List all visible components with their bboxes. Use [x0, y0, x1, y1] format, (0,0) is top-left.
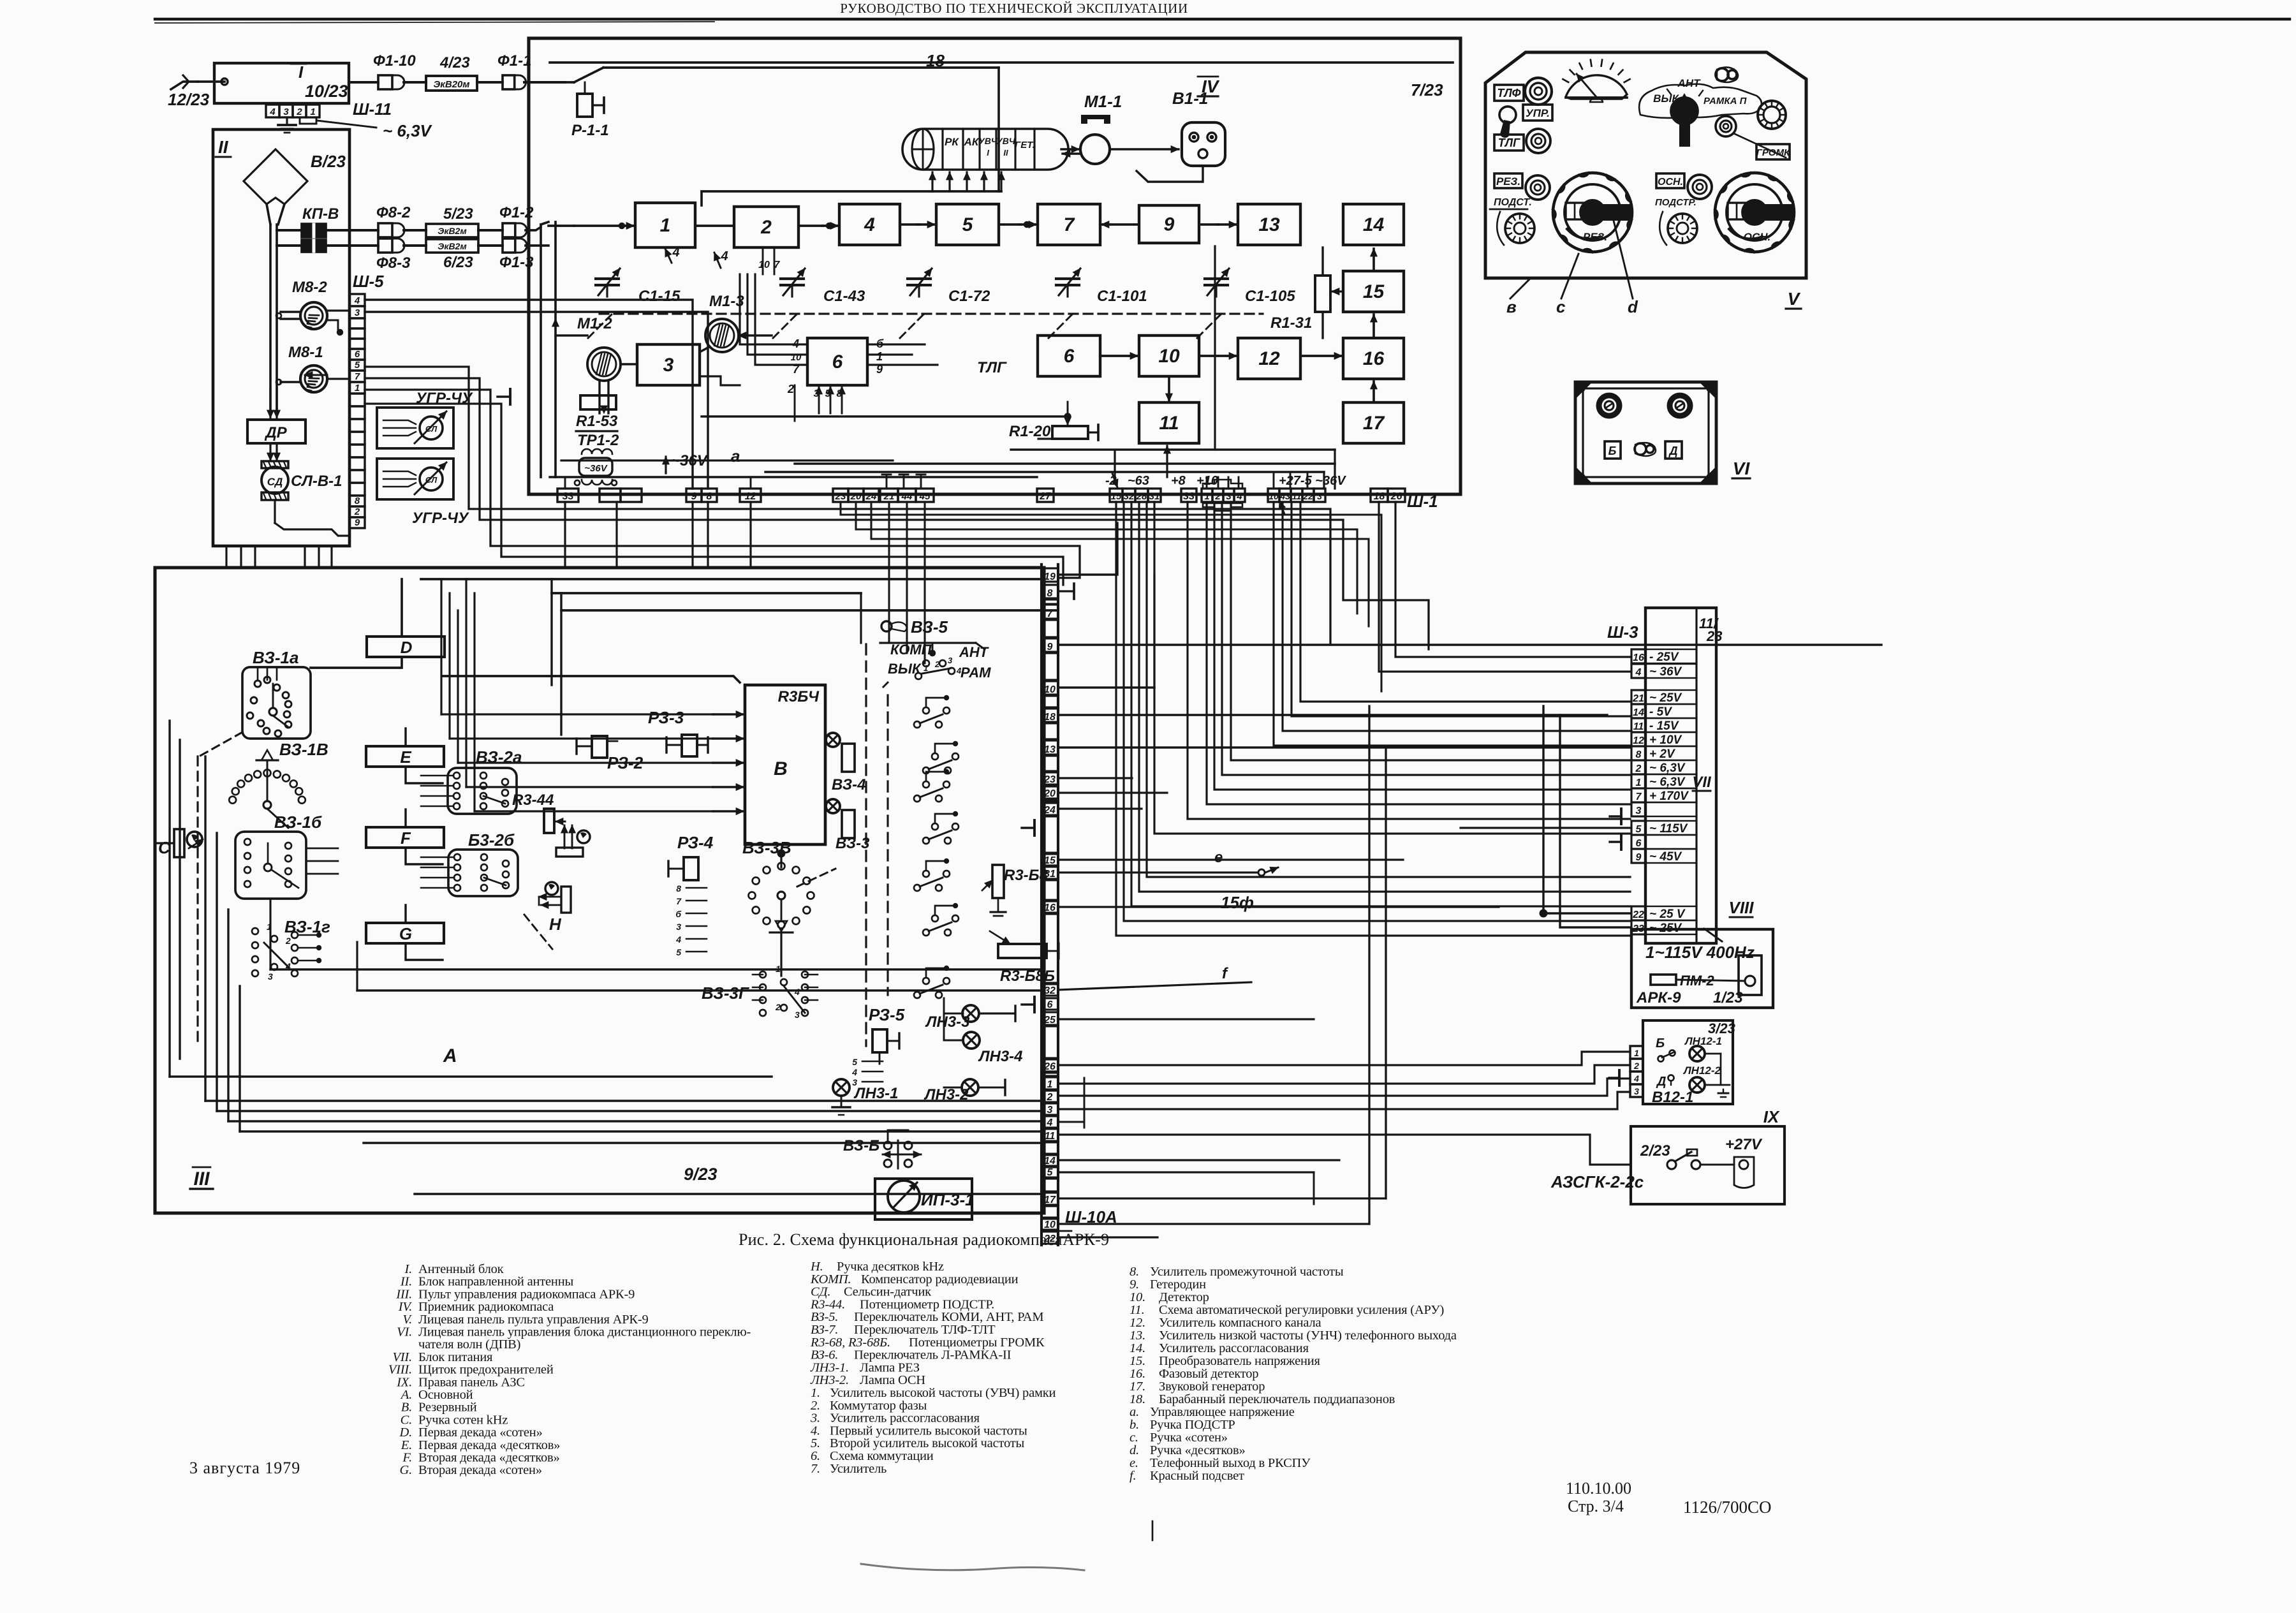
svg-text:4: 4 — [1047, 1117, 1053, 1128]
svg-text:Пульт управления радиокомпаса: Пульт управления радиокомпаса АРК-9 — [418, 1287, 635, 1301]
svg-text:3/23: 3/23 — [1708, 1020, 1735, 1036]
svg-text:АРК-9: АРК-9 — [1063, 1230, 1109, 1249]
svg-text:15: 15 — [1044, 855, 1056, 866]
svg-text:10/23: 10/23 — [305, 82, 348, 101]
svg-text:3: 3 — [1047, 1105, 1053, 1116]
svg-text:+8: +8 — [1171, 474, 1186, 488]
svg-text:II: II — [218, 137, 229, 157]
svg-text:ВЗ-1б: ВЗ-1б — [274, 813, 322, 832]
svg-text:ЛН3-4: ЛН3-4 — [978, 1048, 1023, 1065]
svg-text:~ 25 V: ~ 25 V — [1649, 908, 1686, 921]
svg-text:РЕЗ.: РЕЗ. — [1496, 175, 1520, 188]
svg-text:М8-2: М8-2 — [292, 279, 327, 296]
svg-text:~ 25V: ~ 25V — [1649, 691, 1682, 705]
svg-text:ПОДСТР.: ПОДСТР. — [1655, 197, 1696, 208]
svg-text:12/23: 12/23 — [168, 90, 210, 109]
svg-text:РЗ-2: РЗ-2 — [607, 753, 644, 772]
svg-text:7: 7 — [355, 371, 360, 382]
svg-text:~ 45V: ~ 45V — [1649, 850, 1682, 864]
svg-text:В12-1: В12-1 — [1652, 1089, 1693, 1106]
svg-text:28: 28 — [1136, 491, 1147, 502]
svg-text:f.: f. — [1130, 1469, 1136, 1483]
svg-text:I: I — [987, 148, 989, 158]
svg-text:IV.: IV. — [398, 1300, 413, 1314]
svg-text:6: 6 — [1047, 999, 1053, 1010]
svg-text:2: 2 — [1635, 763, 1642, 774]
svg-text:СД.: СД. — [811, 1285, 830, 1299]
svg-text:31: 31 — [1044, 869, 1056, 880]
svg-text:25: 25 — [1043, 1015, 1056, 1026]
svg-text:ЭкВ2м: ЭкВ2м — [438, 241, 467, 251]
svg-text:3: 3 — [795, 1010, 800, 1020]
svg-text:+ 10V: + 10V — [1649, 733, 1682, 747]
svg-text:18.: 18. — [1130, 1392, 1145, 1406]
svg-text:РЗ-5: РЗ-5 — [869, 1005, 905, 1024]
svg-text:1: 1 — [310, 107, 315, 117]
svg-text:110.10.00: 110.10.00 — [1566, 1479, 1631, 1498]
svg-text:33: 33 — [1183, 491, 1195, 502]
svg-text:15ф: 15ф — [1221, 893, 1254, 912]
svg-text:A.: A. — [400, 1388, 412, 1402]
svg-text:С1-72: С1-72 — [948, 288, 990, 305]
svg-text:23: 23 — [1706, 628, 1722, 644]
svg-text:5: 5 — [852, 1057, 857, 1067]
svg-text:VII: VII — [1692, 774, 1712, 791]
svg-text:В/23: В/23 — [311, 152, 346, 171]
svg-text:РУКОВОДСТВО ПО ТЕХНИЧЕСКОЙ ЭКС: РУКОВОДСТВО ПО ТЕХНИЧЕСКОЙ ЭКСПЛУАТАЦИИ — [840, 1, 1188, 16]
svg-text:c.: c. — [1130, 1431, 1138, 1445]
svg-text:4: 4 — [1236, 491, 1242, 502]
svg-text:Коммутатор фазы: Коммутатор фазы — [830, 1399, 927, 1413]
svg-text:8: 8 — [676, 883, 681, 894]
svg-text:2: 2 — [934, 659, 940, 669]
svg-text:Антенный блок: Антенный блок — [418, 1262, 504, 1276]
svg-text:Гетеродин: Гетеродин — [1150, 1278, 1206, 1292]
svg-text:1: 1 — [660, 215, 671, 236]
svg-text:VIII: VIII — [1728, 898, 1754, 917]
svg-text:Первая декада «сотен»: Первая декада «сотен» — [418, 1425, 543, 1440]
svg-text:~ 6,3V: ~ 6,3V — [1649, 762, 1686, 775]
svg-text:6: 6 — [832, 351, 843, 372]
svg-text:23: 23 — [835, 491, 846, 502]
svg-text:10: 10 — [758, 260, 770, 270]
svg-text:8: 8 — [1047, 588, 1053, 599]
svg-text:1126/700CO: 1126/700CO — [1683, 1498, 1772, 1517]
svg-text:18: 18 — [1374, 491, 1385, 502]
svg-text:Первый усилитель высокой часто: Первый усилитель высокой частоты — [830, 1424, 1027, 1438]
svg-text:4: 4 — [675, 934, 681, 945]
svg-text:ВЗ-5.: ВЗ-5. — [811, 1310, 838, 1324]
svg-text:24: 24 — [865, 491, 877, 502]
svg-text:15: 15 — [1111, 491, 1122, 502]
svg-text:C.: C. — [401, 1413, 412, 1427]
svg-text:5: 5 — [1636, 824, 1642, 835]
svg-text:Ручка сотен kHz: Ручка сотен kHz — [418, 1413, 508, 1427]
svg-text:Схема коммутации: Схема коммутации — [830, 1449, 934, 1463]
svg-text:- 15V: - 15V — [1649, 719, 1679, 733]
svg-text:16.: 16. — [1130, 1367, 1145, 1381]
svg-text:Потенциометр ПОДСТР.: Потенциометр ПОДСТР. — [860, 1297, 994, 1311]
svg-text:С1-15: С1-15 — [638, 288, 681, 305]
svg-text:III.: III. — [395, 1287, 412, 1301]
svg-text:ВЗ-4: ВЗ-4 — [832, 776, 866, 793]
svg-text:33: 33 — [563, 491, 574, 502]
svg-text:УВЧ: УВЧ — [978, 136, 998, 146]
svg-text:3: 3 — [948, 656, 953, 665]
svg-text:Н: Н — [549, 915, 562, 934]
svg-text:Ш-11: Ш-11 — [353, 99, 392, 119]
svg-text:Блок направленной антенны: Блок направленной антенны — [418, 1275, 573, 1289]
svg-text:1: 1 — [1634, 1048, 1639, 1058]
svg-text:Лампа ОСН: Лампа ОСН — [860, 1373, 925, 1387]
svg-text:IX: IX — [1763, 1107, 1780, 1126]
svg-text:ТЛГ: ТЛГ — [1498, 136, 1520, 149]
svg-text:Приемник радиокомпаса: Приемник радиокомпаса — [418, 1300, 554, 1314]
svg-text:14: 14 — [1633, 707, 1644, 718]
svg-text:е: е — [1214, 849, 1223, 866]
svg-text:Управляющее напряжение: Управляющее напряжение — [1150, 1405, 1295, 1419]
svg-text:45: 45 — [919, 491, 931, 502]
svg-text:Рис. 2. Схема функциональная р: Рис. 2. Схема функциональная радиокомпас… — [739, 1230, 1063, 1249]
svg-text:4.: 4. — [811, 1424, 820, 1438]
svg-text:17: 17 — [1044, 1195, 1056, 1205]
svg-text:5: 5 — [676, 947, 681, 957]
svg-text:Вторая декада «сотен»: Вторая декада «сотен» — [418, 1463, 542, 1477]
svg-text:9.: 9. — [1130, 1278, 1139, 1292]
svg-text:Ручка ПОДСТР: Ручка ПОДСТР — [1150, 1418, 1235, 1432]
svg-text:ВЗ-1В: ВЗ-1В — [279, 740, 328, 759]
svg-text:7/23: 7/23 — [1411, 80, 1443, 99]
svg-text:Красный подсвет: Красный подсвет — [1150, 1469, 1244, 1483]
svg-text:12: 12 — [1258, 348, 1280, 369]
svg-text:АРК-9: АРК-9 — [1636, 989, 1681, 1006]
svg-text:Ш-1: Ш-1 — [1407, 492, 1438, 511]
svg-text:М1-2: М1-2 — [577, 315, 612, 332]
svg-text:АЗСГК-2-2с: АЗСГК-2-2с — [1550, 1172, 1644, 1191]
svg-text:Звуковой генератор: Звуковой генератор — [1159, 1380, 1265, 1394]
svg-text:10: 10 — [1044, 684, 1056, 695]
svg-text:R1-31: R1-31 — [1270, 314, 1312, 332]
svg-text:СД: СД — [267, 476, 283, 488]
svg-text:3: 3 — [663, 355, 674, 376]
svg-text:ЛН3-1: ЛН3-1 — [853, 1085, 899, 1102]
svg-text:14.: 14. — [1130, 1341, 1145, 1355]
svg-text:3.: 3. — [810, 1411, 820, 1425]
svg-text:21: 21 — [883, 491, 895, 502]
svg-text:УПР.: УПР. — [1526, 107, 1550, 119]
svg-text:d.: d. — [1130, 1443, 1139, 1457]
svg-text:Ф1-10: Ф1-10 — [373, 52, 416, 70]
svg-text:АК: АК — [964, 136, 980, 148]
svg-text:Блок питания: Блок питания — [418, 1350, 493, 1364]
svg-text:7.: 7. — [811, 1462, 820, 1476]
svg-text:ЛН3-3: ЛН3-3 — [925, 1013, 970, 1031]
svg-text:16: 16 — [1044, 902, 1056, 913]
svg-text:IX.: IX. — [396, 1375, 412, 1389]
svg-text:11: 11 — [1292, 491, 1302, 501]
svg-text:12: 12 — [745, 491, 756, 502]
svg-text:VI: VI — [1733, 459, 1751, 478]
svg-text:13: 13 — [1258, 214, 1280, 235]
svg-text:2: 2 — [296, 107, 302, 117]
svg-text:1: 1 — [355, 383, 360, 394]
svg-text:15.: 15. — [1130, 1354, 1145, 1368]
svg-text:~ 6,3V: ~ 6,3V — [383, 121, 433, 140]
svg-text:~36V: ~36V — [584, 463, 608, 474]
svg-text:III: III — [193, 1168, 210, 1189]
svg-text:Барабанный переключатель подди: Барабанный переключатель поддиапазонов — [1159, 1392, 1395, 1406]
svg-text:Б: Б — [1608, 445, 1617, 457]
svg-text:a.: a. — [1130, 1405, 1139, 1419]
svg-text:Телефонный выход в РКСПУ: Телефонный выход в РКСПУ — [1150, 1456, 1311, 1470]
svg-text:ЛН3-1.: ЛН3-1. — [810, 1360, 849, 1374]
svg-text:9: 9 — [1164, 214, 1175, 235]
svg-text:Усилитель промежуточной частот: Усилитель промежуточной частоты — [1150, 1265, 1344, 1279]
svg-text:Усилитель рассогласования: Усилитель рассогласования — [830, 1411, 980, 1425]
svg-text:13.: 13. — [1130, 1329, 1145, 1343]
svg-text:Компенсатор радиодевиации: Компенсатор радиодевиации — [861, 1272, 1019, 1286]
svg-text:4: 4 — [851, 1067, 857, 1077]
svg-text:1: 1 — [1636, 777, 1642, 788]
svg-text:Д: Д — [1668, 445, 1678, 457]
svg-text:4: 4 — [1633, 1073, 1639, 1084]
svg-text:17.: 17. — [1130, 1380, 1145, 1394]
svg-text:Резервный: Резервный — [418, 1401, 477, 1415]
svg-text:Д: Д — [1656, 1075, 1666, 1089]
svg-text:6: 6 — [355, 349, 360, 360]
svg-text:10.: 10. — [1130, 1290, 1145, 1304]
svg-text:Основной: Основной — [418, 1388, 473, 1402]
svg-text:Переключатель Л-РАМКА-II: Переключатель Л-РАМКА-II — [854, 1348, 1012, 1362]
svg-text:4: 4 — [672, 246, 679, 260]
svg-text:II: II — [1003, 148, 1008, 158]
svg-text:Ф8-2: Ф8-2 — [376, 204, 411, 221]
svg-text:F.: F. — [402, 1451, 412, 1465]
svg-text:13: 13 — [1044, 744, 1056, 755]
svg-text:С1-105: С1-105 — [1245, 288, 1295, 305]
svg-text:I: I — [298, 63, 304, 82]
svg-text:9: 9 — [1636, 852, 1642, 863]
svg-text:б: б — [675, 909, 681, 919]
svg-text:2: 2 — [1633, 1061, 1639, 1071]
svg-text:3 августа 1979: 3 августа 1979 — [189, 1459, 300, 1477]
svg-text:~63: ~63 — [1128, 474, 1149, 488]
svg-text:f: f — [1222, 965, 1228, 982]
svg-text:ТЛФ: ТЛФ — [1497, 87, 1520, 99]
svg-text:Преобразователь напряжения: Преобразователь напряжения — [1159, 1354, 1321, 1368]
svg-text:ТЛГ: ТЛГ — [977, 359, 1007, 376]
svg-text:ВЗ-1а: ВЗ-1а — [253, 648, 298, 667]
svg-text:4: 4 — [1635, 667, 1642, 678]
svg-text:d: d — [1628, 297, 1638, 316]
svg-text:24: 24 — [1043, 805, 1056, 816]
svg-text:11: 11 — [1045, 1131, 1056, 1142]
svg-text:2/23: 2/23 — [1640, 1142, 1670, 1160]
svg-text:5/23: 5/23 — [443, 205, 473, 223]
svg-text:РАМКА П: РАМКА П — [1704, 96, 1748, 107]
svg-text:F: F — [401, 829, 411, 848]
svg-text:20: 20 — [850, 491, 862, 502]
svg-text:Лицевая панель управления блок: Лицевая панель управления блока дистанци… — [418, 1325, 751, 1339]
svg-text:5: 5 — [1047, 1167, 1054, 1178]
svg-text:Ручка десятков kHz: Ручка десятков kHz — [837, 1260, 944, 1274]
svg-text:~ 36V: ~ 36V — [1649, 665, 1682, 679]
svg-text:9: 9 — [691, 491, 697, 502]
svg-text:8: 8 — [1636, 749, 1642, 760]
svg-text:8: 8 — [707, 491, 712, 502]
svg-text:32: 32 — [1124, 491, 1135, 502]
svg-text:6/23: 6/23 — [443, 254, 473, 271]
svg-text:ВЗ-3Г: ВЗ-3Г — [702, 983, 749, 1003]
svg-text:КОМП: КОМП — [890, 642, 932, 658]
svg-text:РЗ-4: РЗ-4 — [677, 833, 714, 852]
svg-text:4: 4 — [354, 295, 360, 306]
svg-text:1: 1 — [924, 663, 928, 673]
svg-text:9/23: 9/23 — [684, 1165, 717, 1184]
svg-text:Ф1-1: Ф1-1 — [497, 52, 531, 70]
svg-text:Б: Б — [1656, 1036, 1665, 1050]
svg-text:- 25V: - 25V — [1649, 651, 1679, 664]
svg-text:2: 2 — [354, 506, 360, 517]
svg-text:2: 2 — [1047, 1092, 1053, 1103]
svg-text:2: 2 — [1214, 491, 1221, 502]
svg-text:26: 26 — [1043, 1061, 1056, 1072]
svg-text:20: 20 — [1043, 788, 1056, 799]
svg-text:~ 6,3V: ~ 6,3V — [1649, 776, 1686, 789]
svg-text:Усилитель низкой частоты (УНЧ): Усилитель низкой частоты (УНЧ) телефонно… — [1159, 1329, 1457, 1343]
svg-text:ЛН3-2.: ЛН3-2. — [810, 1373, 849, 1387]
svg-text:R3БЧ: R3БЧ — [778, 688, 820, 705]
svg-text:22: 22 — [1302, 491, 1313, 501]
svg-text:7: 7 — [676, 896, 682, 906]
svg-text:Усилитель высокой частоты (УВЧ: Усилитель высокой частоты (УВЧ) рамки — [830, 1386, 1056, 1400]
svg-text:11: 11 — [1159, 413, 1179, 434]
svg-text:ТР1-2: ТР1-2 — [577, 432, 619, 449]
svg-text:4/23: 4/23 — [439, 54, 470, 71]
svg-text:Правая панель АЗС: Правая панель АЗС — [418, 1375, 525, 1389]
svg-text:7: 7 — [1047, 608, 1054, 619]
svg-text:3: 3 — [676, 922, 681, 932]
svg-text:31: 31 — [1149, 491, 1160, 502]
svg-text:ВЗ-Б: ВЗ-Б — [843, 1137, 879, 1154]
svg-text:+ 2V: + 2V — [1649, 748, 1675, 761]
svg-text:ВЗ-5: ВЗ-5 — [911, 617, 948, 637]
svg-text:Сельсин-датчик: Сельсин-датчик — [844, 1285, 931, 1299]
svg-text:Ф8-3: Ф8-3 — [376, 254, 411, 272]
svg-text:e.: e. — [1130, 1456, 1138, 1470]
svg-text:2: 2 — [285, 936, 291, 946]
svg-text:Р-1-1: Р-1-1 — [571, 122, 609, 139]
svg-text:b.: b. — [1130, 1418, 1139, 1432]
svg-text:10: 10 — [1269, 491, 1279, 501]
svg-text:СЛ-В-1: СЛ-В-1 — [291, 473, 342, 490]
svg-text:a: a — [731, 446, 740, 466]
svg-text:УВЧ: УВЧ — [996, 136, 1016, 146]
svg-text:R3-44: R3-44 — [512, 792, 554, 809]
svg-text:D: D — [401, 638, 413, 657]
svg-text:Переключатель КОМИ, АНТ, РАМ: Переключатель КОМИ, АНТ, РАМ — [854, 1310, 1043, 1324]
svg-text:17: 17 — [1363, 413, 1385, 434]
svg-text:С1-101: С1-101 — [1097, 288, 1147, 305]
svg-text:ГРОМК: ГРОМК — [1756, 147, 1791, 158]
svg-text:11.: 11. — [1130, 1303, 1145, 1317]
svg-text:I.: I. — [404, 1262, 412, 1276]
svg-text:4: 4 — [269, 107, 276, 117]
svg-text:ГЕТ.: ГЕТ. — [1015, 140, 1035, 151]
svg-text:c: c — [1556, 297, 1566, 316]
svg-text:8.: 8. — [1130, 1265, 1139, 1279]
svg-text:Первая декада «десятков»: Первая декада «десятков» — [418, 1438, 560, 1452]
svg-text:Фазовый детектор: Фазовый детектор — [1159, 1367, 1258, 1381]
svg-text:В1-1: В1-1 — [1172, 89, 1208, 108]
svg-text:Щиток предохранителей: Щиток предохранителей — [418, 1363, 554, 1377]
svg-text:4: 4 — [864, 214, 875, 235]
svg-text:ВЗ-6.: ВЗ-6. — [811, 1348, 838, 1362]
svg-text:М1-1: М1-1 — [1084, 92, 1122, 111]
svg-text:РАМ: РАМ — [960, 665, 991, 681]
svg-text:1: 1 — [876, 350, 883, 363]
svg-text:VII.: VII. — [392, 1350, 412, 1364]
svg-text:26: 26 — [1390, 491, 1402, 502]
svg-text:12: 12 — [1633, 735, 1644, 746]
svg-text:1.: 1. — [811, 1386, 820, 1400]
svg-text:21: 21 — [1632, 693, 1644, 704]
svg-text:Второй усилитель высокой часто: Второй усилитель высокой частоты — [830, 1436, 1024, 1450]
svg-text:4: 4 — [720, 249, 728, 263]
svg-text:VIII.: VIII. — [388, 1363, 412, 1377]
svg-text:3: 3 — [1634, 1086, 1639, 1096]
svg-text:+27V: +27V — [1725, 1136, 1763, 1153]
svg-text:II.: II. — [400, 1275, 412, 1289]
svg-text:Лицевая панель пульта управлен: Лицевая панель пульта управления АРК-9 — [418, 1313, 649, 1327]
svg-text:V.: V. — [402, 1313, 412, 1327]
svg-text:1: 1 — [1047, 1079, 1053, 1090]
svg-text:R1-20: R1-20 — [1009, 423, 1051, 440]
svg-text:10: 10 — [1158, 346, 1180, 367]
svg-text:ВЗ-7.: ВЗ-7. — [811, 1323, 838, 1337]
svg-text:14: 14 — [1363, 214, 1385, 235]
svg-text:D.: D. — [399, 1425, 412, 1440]
svg-text:3: 3 — [1226, 491, 1232, 502]
svg-text:E: E — [400, 748, 411, 767]
svg-text:9: 9 — [1047, 642, 1053, 652]
svg-text:7: 7 — [1064, 214, 1075, 235]
svg-text:ОСН.: ОСН. — [1658, 177, 1683, 188]
svg-text:ПОДСТ.: ПОДСТ. — [1494, 197, 1532, 208]
svg-text:ЛН12-1: ЛН12-1 — [1684, 1035, 1722, 1047]
svg-text:VI.: VI. — [397, 1325, 412, 1339]
svg-text:ЭкВ2м: ЭкВ2м — [438, 226, 467, 236]
svg-text:16: 16 — [1363, 348, 1385, 369]
svg-text:5: 5 — [962, 214, 974, 235]
svg-text:3: 3 — [268, 971, 273, 982]
svg-text:B.: B. — [401, 1401, 412, 1415]
svg-text:С1-43: С1-43 — [823, 288, 865, 305]
svg-text:6.: 6. — [811, 1449, 820, 1463]
svg-text:Детектор: Детектор — [1159, 1290, 1209, 1304]
svg-text:Лампа РЕЗ: Лампа РЕЗ — [860, 1360, 920, 1374]
svg-text:3: 3 — [1317, 491, 1322, 501]
svg-text:9: 9 — [355, 517, 360, 528]
svg-text:КОМП.: КОМП. — [810, 1272, 851, 1286]
svg-text:4: 4 — [794, 987, 800, 997]
svg-text:R1-53: R1-53 — [576, 413, 618, 430]
svg-text:КП-В: КП-В — [302, 205, 339, 223]
svg-text:в: в — [1506, 297, 1517, 316]
svg-text:R3-68, R3-68Б.: R3-68, R3-68Б. — [810, 1336, 890, 1350]
svg-text:+ 170V: + 170V — [1649, 790, 1689, 803]
svg-text:3: 3 — [355, 307, 360, 318]
